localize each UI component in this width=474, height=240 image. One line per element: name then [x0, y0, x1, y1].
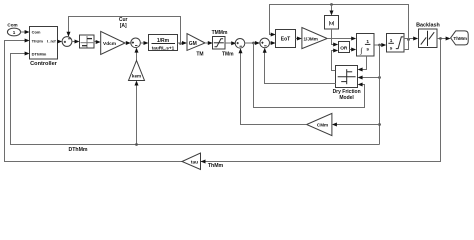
- wire TF to GM: [178, 41, 188, 45]
- gain CMm (points left): [307, 113, 332, 135]
- svg-text:Controller: Controller: [30, 61, 58, 67]
- wire abs down to OR input 1: [332, 29, 339, 47]
- wire int2 to backlash with loop and node: [404, 37, 418, 50]
- gain GM: [187, 34, 205, 58]
- wire kem to sum2 (back-EMF): [135, 48, 139, 61]
- block integrator 1 (1/s with reset): [357, 34, 375, 57]
- svg-text:1: 1: [13, 30, 16, 35]
- block saturation TMMm: [212, 30, 235, 58]
- gain Vdcm: [101, 31, 125, 54]
- svg-text:s: s: [366, 48, 369, 53]
- wire speed line to kem: [135, 81, 139, 146]
- svg-text:tauRL.s+1: tauRL.s+1: [152, 45, 175, 50]
- wire: position feedback top run (to EoT top input and |u|): [270, 3, 410, 41]
- sum junction 2 (EMF): [131, 38, 141, 48]
- wire OR to integrator1 reset: [349, 48, 356, 52]
- svg-text:1/JMm: 1/JMm: [304, 36, 318, 41]
- wire: current feedback (from TF output node up and to sum1 top): [67, 17, 182, 45]
- wire: ThMm bottom feedback (right vertical + bottom run + left vertical to ThUm): [5, 39, 441, 162]
- svg-text:DThMm: DThMm: [68, 147, 87, 153]
- svg-text:s: s: [390, 47, 393, 52]
- svg-text:EoT: EoT: [281, 37, 290, 43]
- wire DFM output to sum4: [263, 48, 336, 84]
- wire speed vertical down (to CMm and DThMm): [378, 45, 381, 145]
- output tag ThMm: [451, 31, 469, 45]
- wire oval to controller: [20, 30, 29, 34]
- block Dry Friction Model (flipped, inputs right): [333, 66, 361, 102]
- wire sum1 to relay: [72, 40, 80, 44]
- svg-text:Com: Com: [32, 30, 41, 35]
- wire top run into abs block: [330, 5, 334, 16]
- wire sum2 to TF: [140, 41, 148, 45]
- svg-text:TMMm: TMMm: [212, 30, 228, 36]
- block EoT (end of travel): [276, 30, 296, 48]
- input oval Com (1): [7, 22, 20, 36]
- block OR: [339, 42, 350, 53]
- block integrator 2 (1/s limited): [387, 34, 405, 53]
- sum junction 1 (current error): [62, 37, 72, 47]
- svg-text:DThMm: DThMm: [32, 51, 47, 56]
- wire speed to CMm input: [332, 123, 380, 127]
- svg-text:ThUm: ThUm: [32, 38, 44, 43]
- wire 1/JMm to integrator 1: [327, 37, 356, 41]
- block abs |u|: [325, 16, 339, 30]
- wire controller to sum1: [57, 40, 62, 44]
- gain tau (bottom feedback, points left): [182, 153, 206, 170]
- wire torque tap to DFM input 3: [254, 43, 365, 108]
- wire relay to Vdcm: [94, 40, 101, 44]
- sum junction 3 (viscous friction): [235, 39, 245, 49]
- svg-text:Backlash: Backlash: [416, 23, 440, 29]
- svg-text:ThMm: ThMm: [453, 36, 467, 41]
- wire EoT to 1/JMm: [295, 37, 302, 41]
- wire backlash to output with node: [437, 37, 451, 41]
- svg-text:Model: Model: [339, 95, 354, 101]
- svg-text:GM: GM: [189, 41, 197, 47]
- svg-text:CMm: CMm: [317, 122, 328, 127]
- wire Vdcm to sum2: [125, 41, 131, 45]
- gain kem (points up): [129, 61, 145, 81]
- block Controller: [30, 27, 58, 68]
- svg-text:|u|: |u|: [329, 21, 335, 27]
- svg-text:kem: kem: [132, 74, 141, 79]
- svg-text:I_ref: I_ref: [47, 38, 56, 43]
- block relay (current controller): [80, 35, 95, 48]
- svg-text:ThMm: ThMm: [208, 163, 224, 169]
- svg-text:Cur: Cur: [119, 17, 128, 23]
- wire sum4 to EoT: [270, 41, 276, 45]
- sum junction 4 (dry friction): [260, 38, 270, 48]
- wire saturation to sum3: [225, 41, 236, 45]
- wire dry friction model up to OR input 2: [332, 49, 339, 71]
- svg-text:OR: OR: [340, 45, 348, 51]
- wire speed to DFM input 2: [358, 76, 381, 80]
- wire GM to saturation: [205, 41, 213, 45]
- wire int1 to int2 with speed node: [374, 43, 386, 47]
- wire integrator1 state port to DFM input 1: [358, 56, 367, 72]
- wire sum3 to sum4 with node: [245, 41, 260, 45]
- svg-text:1/Rm: 1/Rm: [157, 38, 170, 44]
- wire CMm output to sum3 bottom: [239, 48, 307, 124]
- block Backlash: [416, 23, 440, 48]
- svg-text:tau: tau: [191, 160, 198, 166]
- gain 1/JMm: [302, 28, 327, 49]
- svg-text:Dry Friction: Dry Friction: [333, 89, 361, 95]
- svg-text:TM: TM: [196, 51, 203, 57]
- svg-text:[A]: [A]: [120, 23, 127, 29]
- wire: DThMm speed feedback bottom run to controller: [11, 52, 380, 145]
- svg-text:TMm: TMm: [222, 52, 234, 58]
- svg-text:Vdcm: Vdcm: [103, 41, 116, 47]
- svg-text:Com: Com: [7, 22, 17, 27]
- block transfer fcn 1/Rm / tauRL.s+1: [149, 35, 178, 51]
